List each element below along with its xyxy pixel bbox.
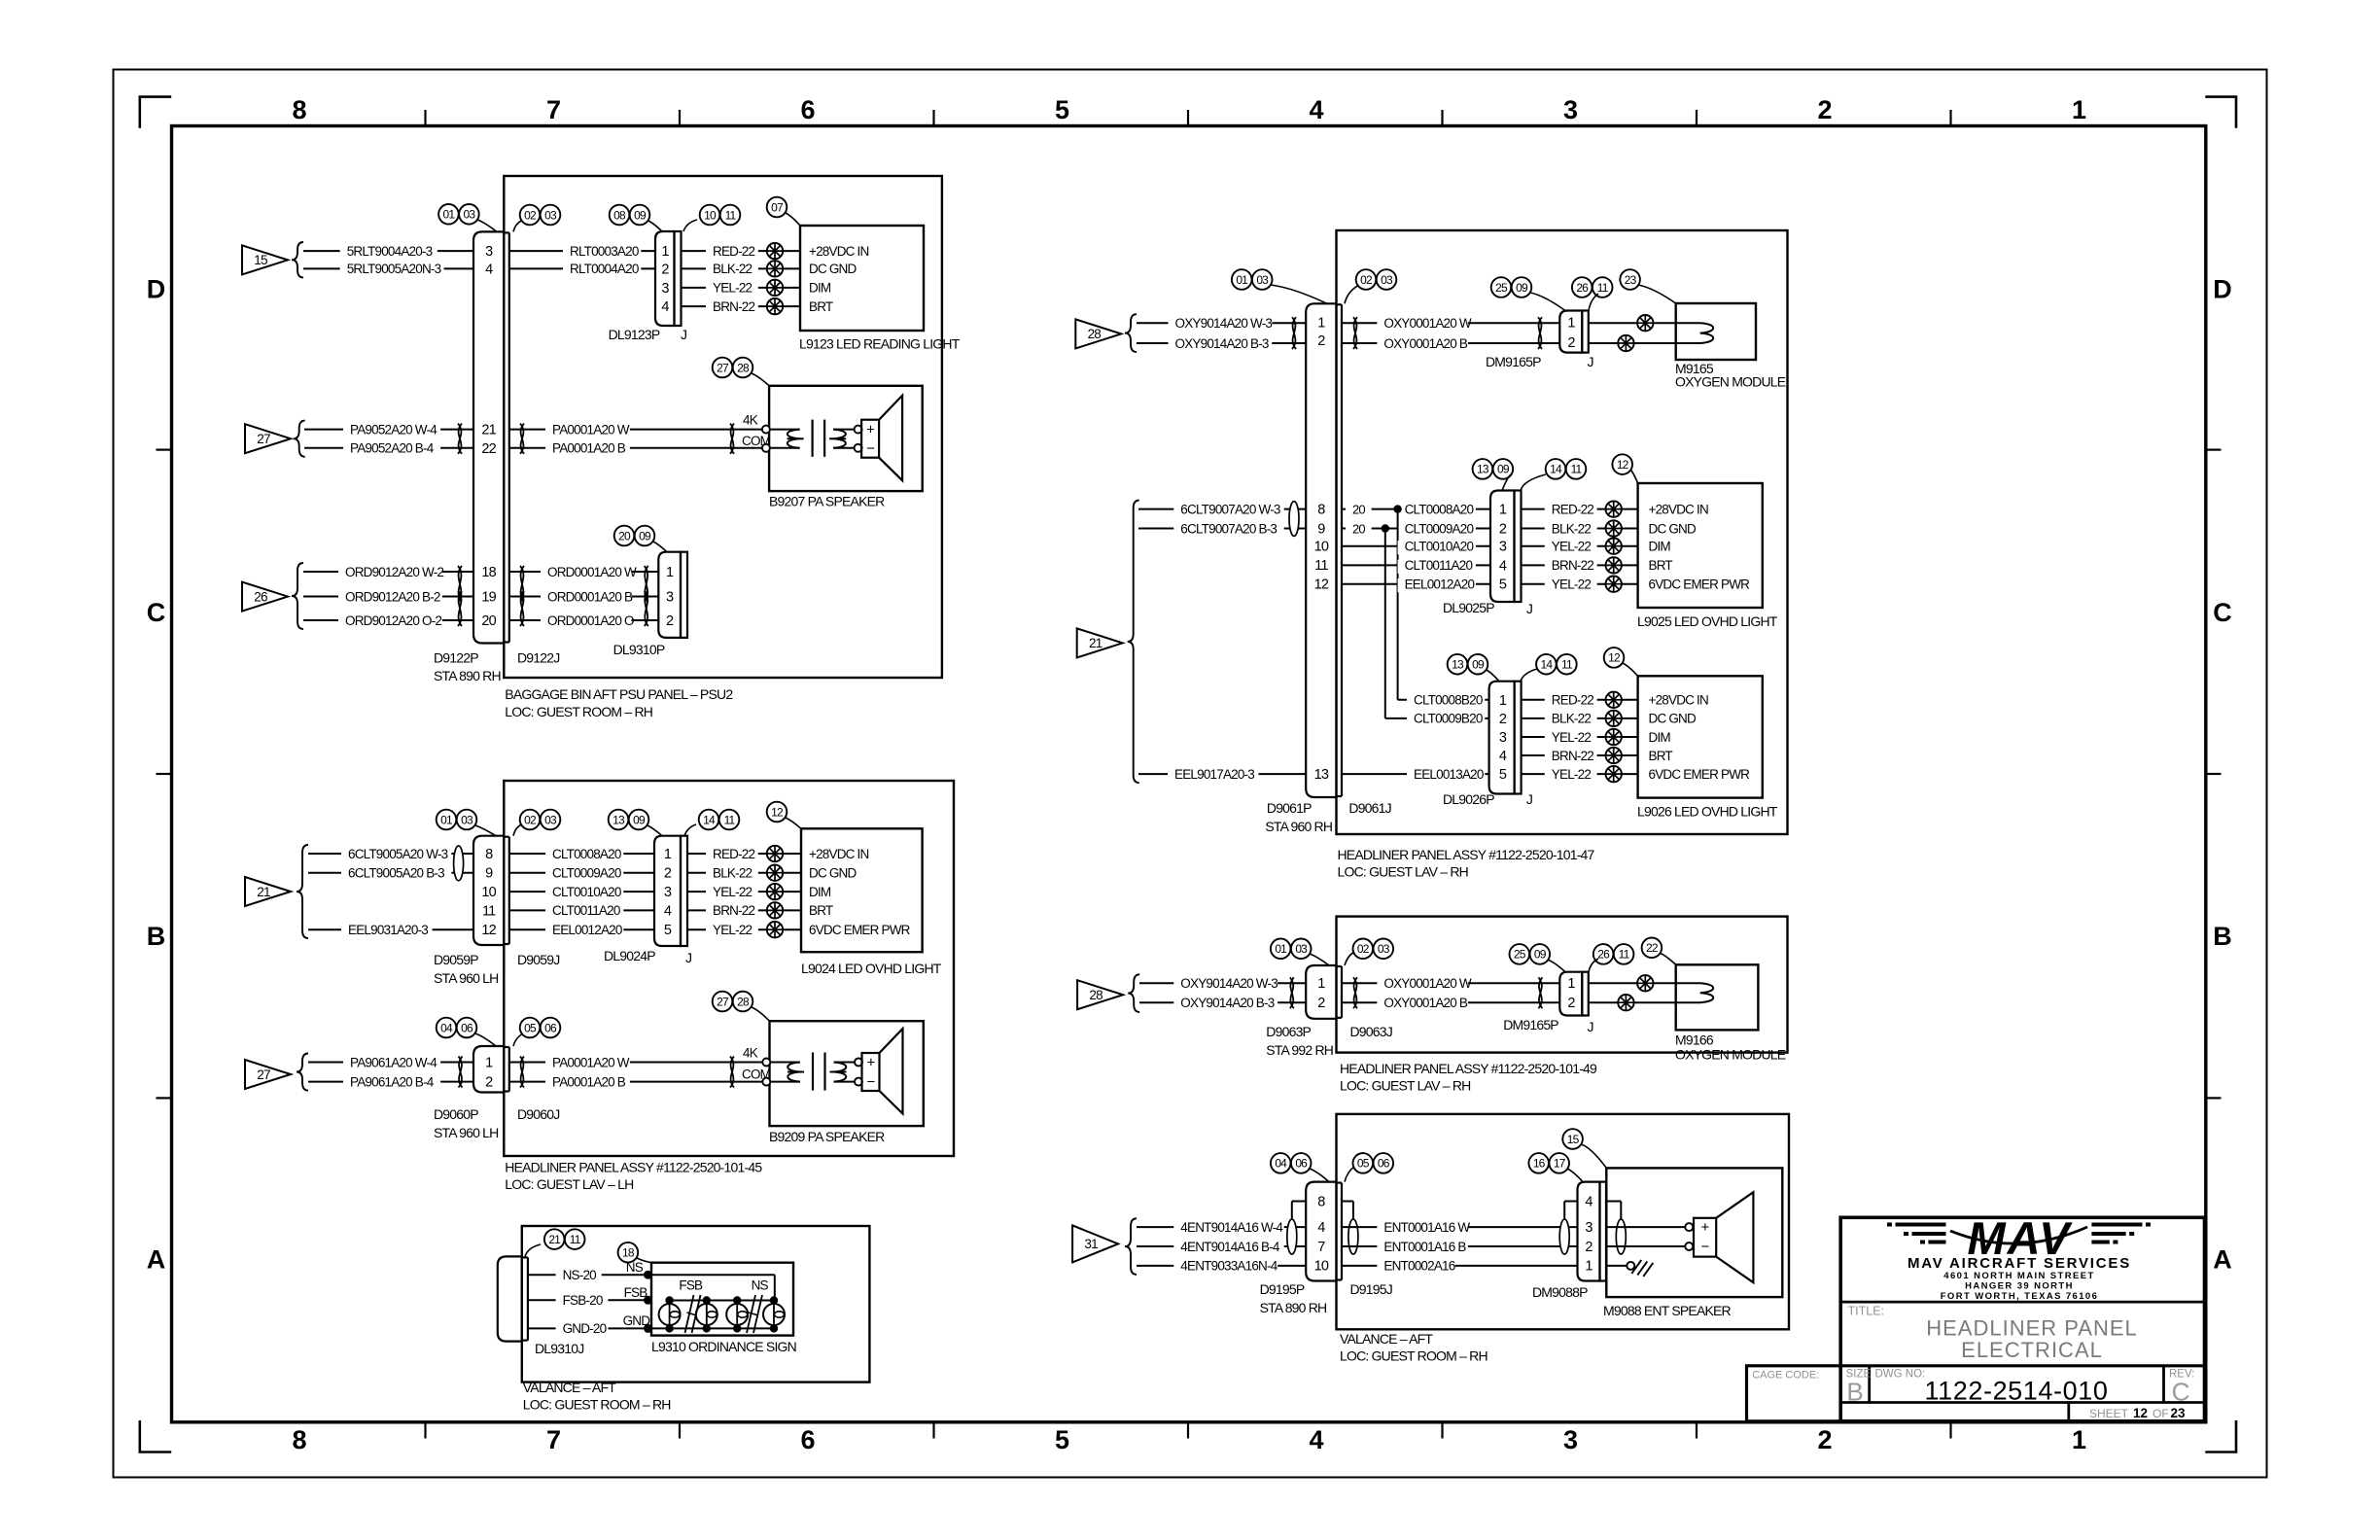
- wire RLT0004A20: [509, 262, 655, 277]
- svg-text:YEL-22: YEL-22: [713, 923, 752, 937]
- svg-text:M9088 ENT SPEAKER: M9088 ENT SPEAKER: [1603, 1303, 1732, 1318]
- svg-text:20: 20: [1352, 521, 1365, 536]
- L9025 LED OVHD light: [1637, 483, 1778, 629]
- svg-text:D9059J: D9059J: [517, 952, 559, 967]
- svg-text:FORT WORTH, TEXAS 76106: FORT WORTH, TEXAS 76106: [1941, 1291, 2099, 1302]
- svg-text:4601 NORTH MAIN STREET: 4601 NORTH MAIN STREET: [1943, 1271, 2094, 1281]
- svg-text:D: D: [147, 275, 166, 304]
- svg-text:ORD9012A20 O-2: ORD9012A20 O-2: [345, 613, 441, 628]
- balloons 05 06 (D9195J): [1345, 1153, 1393, 1182]
- svg-text:ENT0001A16 B: ENT0001A16 B: [1383, 1240, 1466, 1254]
- svg-text:OXY0001A20 W: OXY0001A20 W: [1383, 976, 1472, 991]
- svg-text:DIM: DIM: [809, 885, 831, 899]
- svg-text:20: 20: [618, 529, 631, 542]
- svg-text:BAGGAGE BIN AFT PSU PANEL – PS: BAGGAGE BIN AFT PSU PANEL – PSU2: [505, 686, 733, 702]
- L9026 LED OVHD light: [1637, 676, 1778, 819]
- balloon 22 (M9166): [1642, 938, 1676, 965]
- svg-text:D9060P: D9060P: [434, 1106, 478, 1122]
- balloons 21 11 (DL9310J): [525, 1229, 585, 1256]
- svg-text:22: 22: [1646, 941, 1659, 955]
- svg-text:DC GND: DC GND: [809, 866, 857, 881]
- svg-text:3: 3: [485, 244, 493, 260]
- svg-text:10: 10: [1314, 540, 1329, 555]
- enclosure: headliner panel assy 101-47: [1337, 230, 1788, 880]
- svg-text:M9166: M9166: [1675, 1032, 1714, 1048]
- svg-text:1: 1: [485, 1055, 493, 1070]
- svg-text:+28VDC IN: +28VDC IN: [809, 244, 869, 259]
- balloons 13 09 (DL9026P): [1448, 654, 1499, 682]
- svg-text:11: 11: [725, 208, 737, 222]
- wires 6CLT9007A20 W-3/B-3: [1138, 502, 1306, 537]
- svg-text:12: 12: [1608, 651, 1621, 665]
- svg-text:16: 16: [1533, 1157, 1546, 1171]
- svg-text:4K: 4K: [743, 413, 758, 428]
- svg-text:06: 06: [1295, 1157, 1308, 1171]
- svg-text:OXY9014A20 W-3: OXY9014A20 W-3: [1180, 976, 1277, 991]
- balloons 27 28 (B9207): [713, 358, 769, 386]
- balloons 02 03 (D9063J): [1345, 939, 1393, 966]
- svg-text:CLT0011A20: CLT0011A20: [1405, 558, 1473, 573]
- svg-text:CLT0008A20: CLT0008A20: [1405, 502, 1474, 516]
- svg-text:LOC: GUEST ROOM – RH: LOC: GUEST ROOM – RH: [1340, 1348, 1487, 1364]
- wire 6CLT9005A20 B-3: [308, 866, 473, 882]
- svg-text:5RLT9005A20N-3: 5RLT9005A20N-3: [347, 262, 441, 276]
- svg-text:FSB: FSB: [624, 1285, 648, 1300]
- svg-text:OXY0001A20 W: OXY0001A20 W: [1383, 316, 1472, 331]
- svg-text:STA 890 RH: STA 890 RH: [434, 668, 501, 683]
- svg-text:B: B: [147, 922, 166, 951]
- size / dwg no / rev row: [1846, 1368, 2195, 1406]
- svg-text:1: 1: [1317, 976, 1325, 992]
- balloons 01 03 (D9061P): [1232, 269, 1327, 303]
- wire PA9052A20 W-4 to pin 21: [304, 422, 473, 437]
- svg-text:RLT0003A20: RLT0003A20: [570, 244, 639, 259]
- svg-text:10: 10: [1314, 1259, 1329, 1275]
- svg-text:01: 01: [1275, 942, 1287, 956]
- svg-text:06: 06: [544, 1021, 557, 1034]
- L9024 LED OVHD light: [801, 828, 942, 976]
- svg-text:07: 07: [771, 200, 784, 214]
- connector D9060P / D9060J STA 960 LH: [434, 1046, 559, 1140]
- svg-text:LOC: GUEST ROOM – RH: LOC: GUEST ROOM – RH: [523, 1397, 671, 1413]
- svg-text:YEL-22: YEL-22: [1552, 730, 1592, 745]
- balloons 14 11 (DL9026P J): [1521, 654, 1577, 682]
- svg-text:J: J: [685, 950, 691, 965]
- svg-text:LOC: GUEST LAV – RH: LOC: GUEST LAV – RH: [1338, 864, 1468, 880]
- svg-text:11: 11: [1619, 948, 1630, 962]
- svg-text:D9061J: D9061J: [1348, 800, 1390, 816]
- shield jumper after DM9088P J: [1606, 1202, 1626, 1255]
- svg-text:14: 14: [1550, 463, 1562, 476]
- svg-text:D9195J: D9195J: [1350, 1281, 1392, 1297]
- svg-text:PA0001A20 B: PA0001A20 B: [552, 441, 626, 456]
- svg-text:BRN-22: BRN-22: [713, 903, 755, 918]
- svg-text:03: 03: [1295, 942, 1308, 956]
- svg-text:20: 20: [1352, 502, 1365, 516]
- corner alignment marks: [140, 97, 2236, 1452]
- svg-text:HEADLINER PANEL ASSY #1122-252: HEADLINER PANEL ASSY #1122-2520-101-49: [1340, 1061, 1597, 1076]
- svg-text:18: 18: [481, 565, 496, 580]
- svg-text:−: −: [866, 440, 875, 457]
- svg-text:DM9165P: DM9165P: [1503, 1017, 1558, 1032]
- svg-text:VALANCE – AFT: VALANCE – AFT: [523, 1380, 616, 1395]
- svg-text:27: 27: [257, 432, 270, 446]
- balloons 14 11 (DL9024P J): [684, 810, 739, 836]
- connector DM9088P: [1532, 1182, 1606, 1300]
- flag 27: [245, 421, 305, 457]
- svg-text:28: 28: [737, 361, 750, 374]
- svg-text:NS: NS: [752, 1277, 769, 1292]
- svg-text:D9122P: D9122P: [434, 650, 478, 666]
- svg-text:RLT0004A20: RLT0004A20: [570, 262, 639, 276]
- svg-text:4K: 4K: [743, 1046, 758, 1061]
- svg-text:1: 1: [1499, 503, 1507, 518]
- svg-text:2: 2: [1567, 335, 1575, 351]
- wires ENT0001A16 W/B, ENT0002A16: [1342, 1220, 1577, 1274]
- svg-text:10: 10: [481, 885, 496, 900]
- balloons 20 09 (DL9310P): [614, 526, 667, 552]
- svg-text:4: 4: [1309, 95, 1323, 124]
- svg-text:HEADLINER PANEL ASSY #1122-252: HEADLINER PANEL ASSY #1122-2520-101-45: [505, 1160, 762, 1175]
- svg-text:D: D: [2213, 275, 2232, 304]
- svg-text:CLT0009A20: CLT0009A20: [552, 866, 621, 881]
- svg-text:A: A: [2213, 1245, 2232, 1275]
- svg-text:YEL-22: YEL-22: [713, 885, 752, 899]
- svg-text:1: 1: [2072, 1425, 2086, 1454]
- connector D9122P / D9122J STA 890 RH: [434, 231, 559, 683]
- svg-text:+: +: [867, 1055, 876, 1071]
- svg-text:DC GND: DC GND: [809, 262, 857, 276]
- svg-text:4: 4: [664, 903, 672, 919]
- flag 21: [245, 845, 308, 938]
- svg-text:DL9025P: DL9025P: [1443, 600, 1494, 615]
- svg-text:YEL-22: YEL-22: [1552, 767, 1592, 782]
- svg-text:STA 960 LH: STA 960 LH: [434, 1125, 498, 1140]
- svg-text:1122-2514-010: 1122-2514-010: [1925, 1377, 2109, 1406]
- svg-text:DL9123P: DL9123P: [609, 327, 660, 342]
- svg-text:7: 7: [1317, 1240, 1325, 1255]
- wire EEL0013A20: [1342, 767, 1489, 783]
- svg-text:CAGE CODE:: CAGE CODE:: [1752, 1369, 1819, 1381]
- svg-text:TITLE:: TITLE:: [1848, 1305, 1885, 1318]
- wire RLT0003A20: [509, 244, 655, 260]
- svg-text:2: 2: [666, 613, 674, 629]
- svg-text:FSB: FSB: [679, 1277, 703, 1292]
- svg-text:BLK-22: BLK-22: [1552, 712, 1592, 726]
- svg-text:01: 01: [440, 813, 453, 826]
- svg-text:6VDC EMER PWR: 6VDC EMER PWR: [809, 923, 911, 937]
- balloons 02 03 (D9061J): [1345, 269, 1396, 303]
- svg-text:19: 19: [481, 590, 496, 606]
- svg-text:1: 1: [664, 847, 672, 862]
- svg-text:+28VDC IN: +28VDC IN: [1649, 502, 1709, 516]
- svg-text:BLK-22: BLK-22: [1552, 521, 1592, 536]
- svg-text:SHEET: SHEET: [2089, 1407, 2129, 1420]
- wire GND-20: [528, 1313, 651, 1337]
- svg-text:28: 28: [1089, 988, 1102, 1002]
- svg-text:RED-22: RED-22: [713, 847, 755, 861]
- svg-text:DC GND: DC GND: [1649, 712, 1697, 726]
- svg-text:03: 03: [461, 813, 473, 826]
- svg-text:ELECTRICAL: ELECTRICAL: [1961, 1338, 2103, 1362]
- border zone ticks and grid labels: [147, 95, 2232, 1454]
- svg-text:5: 5: [1055, 95, 1069, 124]
- svg-text:CLT0010A20: CLT0010A20: [1405, 540, 1474, 554]
- balloons 26 11 (DM9165P J mid): [1589, 944, 1633, 972]
- svg-text:3: 3: [1499, 730, 1507, 746]
- wires 4ENT9014A16 W-4/B-4, 4ENT9033A16N-4: [1137, 1220, 1306, 1274]
- wires PA9061A20 W-4/B-4: [308, 1055, 473, 1090]
- svg-text:4: 4: [1317, 1220, 1325, 1236]
- svg-text:09: 09: [633, 813, 646, 826]
- svg-text:OXY0001A20 B: OXY0001A20 B: [1383, 336, 1468, 351]
- balloons 10 11 (DL9123P J): [683, 205, 740, 231]
- wires ORD9012A20 W-2/B-2/O-2: [303, 565, 473, 629]
- sheet row: [2089, 1406, 2186, 1420]
- svg-text:04: 04: [1275, 1157, 1287, 1171]
- svg-text:OXY9014A20 B-3: OXY9014A20 B-3: [1180, 996, 1274, 1010]
- svg-text:4: 4: [661, 299, 669, 315]
- wire PA9052A20 B-4 to pin 22: [304, 441, 473, 457]
- svg-text:STA 960 RH: STA 960 RH: [1265, 819, 1332, 834]
- svg-text:EEL0013A20: EEL0013A20: [1414, 767, 1484, 782]
- svg-text:6CLT9007A20 B-3: 6CLT9007A20 B-3: [1180, 521, 1277, 536]
- svg-text:3: 3: [661, 281, 669, 297]
- wires OXY9014A20 W-3/B-3: [1137, 316, 1306, 352]
- enclosure: baggage bin aft PSU panel PSU2: [504, 176, 942, 719]
- svg-text:4: 4: [1499, 749, 1507, 764]
- svg-text:A: A: [147, 1245, 166, 1275]
- svg-text:HEADLINER PANEL ASSY #1122-252: HEADLINER PANEL ASSY #1122-2520-101-47: [1338, 847, 1595, 862]
- svg-text:B9209 PA SPEAKER: B9209 PA SPEAKER: [769, 1129, 885, 1144]
- svg-text:L9310 ORDINANCE SIGN: L9310 ORDINANCE SIGN: [651, 1339, 796, 1354]
- svg-text:20: 20: [481, 613, 496, 629]
- balloons 26 11 (DM9165P J): [1572, 277, 1613, 310]
- svg-text:02: 02: [524, 813, 537, 826]
- svg-text:11: 11: [1597, 281, 1609, 295]
- svg-text:03: 03: [464, 208, 476, 222]
- shield jumper pin 8 (right of J): [1342, 1202, 1358, 1255]
- svg-text:J: J: [681, 327, 686, 342]
- svg-text:11: 11: [1314, 558, 1328, 574]
- svg-text:OXY0001A20 B: OXY0001A20 B: [1383, 996, 1468, 1010]
- svg-text:BRN-22: BRN-22: [1552, 749, 1594, 763]
- balloons 14 11 (DL9025P J): [1521, 459, 1586, 490]
- svg-text:1: 1: [1567, 316, 1575, 332]
- svg-text:EEL0012A20: EEL0012A20: [552, 923, 622, 937]
- lamp wires RED/BLK/YEL/BRN-22 into L9123: [682, 243, 869, 315]
- svg-text:7: 7: [546, 95, 561, 124]
- main drawing frame: [172, 126, 2206, 1422]
- B9207 PA speaker: [762, 386, 923, 509]
- svg-text:1: 1: [666, 565, 674, 580]
- svg-text:D9060J: D9060J: [517, 1106, 559, 1122]
- svg-text:PA0001A20 W: PA0001A20 W: [552, 422, 630, 437]
- svg-text:DL9310P: DL9310P: [613, 642, 665, 657]
- balloon 12 (L9024): [767, 802, 801, 829]
- svg-text:PA0001A20 B: PA0001A20 B: [552, 1074, 626, 1089]
- svg-text:09: 09: [1516, 281, 1528, 295]
- svg-text:VALANCE – AFT: VALANCE – AFT: [1340, 1331, 1433, 1347]
- svg-text:B9207 PA SPEAKER: B9207 PA SPEAKER: [769, 494, 885, 509]
- svg-text:ENT0002A16: ENT0002A16: [1383, 1259, 1454, 1274]
- branch wires to DL9026P: [1385, 509, 1489, 727]
- svg-text:BRT: BRT: [1649, 749, 1673, 763]
- svg-text:YEL-22: YEL-22: [1552, 577, 1592, 592]
- enclosure: valance aft (left): [522, 1226, 870, 1413]
- svg-text:5: 5: [1499, 577, 1507, 593]
- svg-text:11: 11: [1561, 658, 1573, 672]
- svg-text:2: 2: [1499, 522, 1507, 538]
- wires OXY9014A20 W-3/B-3 (mid): [1139, 976, 1306, 1011]
- svg-text:L9123 LED READING LIGHT: L9123 LED READING LIGHT: [799, 336, 961, 352]
- svg-text:3: 3: [666, 590, 674, 606]
- svg-text:STA 890 RH: STA 890 RH: [1260, 1300, 1327, 1315]
- svg-text:26: 26: [254, 589, 267, 604]
- svg-text:4: 4: [1499, 558, 1507, 574]
- connector DM9165P / J (M9165): [1486, 311, 1593, 370]
- svg-text:26: 26: [1597, 948, 1610, 962]
- svg-text:4ENT9014A16 B-4: 4ENT9014A16 B-4: [1180, 1240, 1280, 1254]
- svg-text:03: 03: [1256, 273, 1269, 287]
- svg-text:09: 09: [1472, 658, 1485, 672]
- svg-text:YEL-22: YEL-22: [713, 281, 752, 296]
- svg-text:J: J: [1588, 354, 1593, 369]
- flag 31 (4ENT): [1072, 1218, 1137, 1275]
- balloons 02 03 (D9059J): [513, 810, 560, 836]
- svg-text:PA9061A20 W-4: PA9061A20 W-4: [350, 1055, 437, 1069]
- connector DL9310J: [498, 1256, 584, 1356]
- svg-text:LOC: GUEST LAV – RH: LOC: GUEST LAV – RH: [1340, 1078, 1470, 1094]
- svg-text:6CLT9007A20 W-3: 6CLT9007A20 W-3: [1180, 502, 1280, 516]
- svg-text:4: 4: [485, 262, 493, 278]
- balloons 01 03 (D9059P): [437, 810, 496, 836]
- svg-text:D9059P: D9059P: [434, 952, 478, 967]
- svg-text:DL9024P: DL9024P: [604, 948, 655, 963]
- balloons 05 06 (D9060J): [513, 1018, 560, 1046]
- svg-text:−: −: [867, 1074, 876, 1091]
- svg-text:03: 03: [1381, 273, 1393, 287]
- M9088 ENT speaker: [1603, 1168, 1782, 1318]
- balloon 23 (M9165): [1620, 269, 1675, 303]
- svg-text:03: 03: [544, 813, 557, 826]
- connector D9059P / D9059J STA 960 LH: [434, 836, 559, 986]
- connector DL9025P / J: [1443, 491, 1532, 617]
- lamp wires into L9026: [1522, 692, 1751, 783]
- svg-text:2: 2: [661, 262, 669, 278]
- svg-text:CLT0008A20: CLT0008A20: [552, 847, 621, 861]
- svg-text:27: 27: [717, 361, 729, 374]
- svg-text:D9063J: D9063J: [1350, 1024, 1392, 1039]
- svg-text:4: 4: [1585, 1194, 1592, 1209]
- svg-text:C: C: [2172, 1378, 2190, 1407]
- balloon 07 (L9123): [767, 197, 800, 226]
- svg-text:6: 6: [800, 1425, 815, 1454]
- flag 26: [242, 563, 303, 629]
- svg-text:DIM: DIM: [809, 281, 831, 296]
- enclosure: valance aft (right): [1337, 1114, 1790, 1364]
- svg-text:STA 960 LH: STA 960 LH: [434, 970, 498, 986]
- svg-text:8: 8: [1317, 502, 1325, 517]
- balloons 04 06 (D9060P): [437, 1018, 496, 1046]
- connector D9195P / D9195J STA 890 RH: [1260, 1182, 1392, 1315]
- balloon 12 (L9026): [1604, 647, 1638, 676]
- svg-text:11: 11: [1571, 463, 1583, 476]
- svg-text:11: 11: [570, 1233, 581, 1246]
- wire 5RLT9005A20N-3 to pin 4: [303, 262, 473, 277]
- svg-text:2: 2: [1585, 1240, 1592, 1255]
- svg-text:2: 2: [1817, 95, 1832, 124]
- balloon 12 (L9025): [1612, 454, 1637, 483]
- svg-text:4ENT9014A16 W-4: 4ENT9014A16 W-4: [1180, 1220, 1283, 1235]
- flag 28 (OXY9014 mid): [1077, 974, 1139, 1012]
- svg-text:1: 1: [2072, 95, 2086, 124]
- svg-text:BRN-22: BRN-22: [1552, 558, 1594, 573]
- svg-text:2: 2: [1817, 1425, 1832, 1454]
- svg-text:5: 5: [664, 923, 672, 938]
- lamps and wires to M9166: [1589, 975, 1676, 1010]
- connector D9061P / D9061J STA 960 RH: [1265, 303, 1390, 834]
- svg-text:−: −: [1701, 1239, 1710, 1255]
- svg-text:27: 27: [717, 995, 729, 1008]
- balloons 04 06 (D9195P): [1271, 1153, 1329, 1182]
- svg-text:OF: OF: [2152, 1407, 2169, 1420]
- svg-text:2: 2: [1317, 996, 1325, 1011]
- svg-text:09: 09: [1497, 463, 1510, 476]
- svg-text:05: 05: [524, 1021, 537, 1034]
- svg-text:25: 25: [1514, 948, 1526, 962]
- svg-text:1: 1: [661, 244, 669, 260]
- svg-text:+28VDC IN: +28VDC IN: [809, 847, 869, 861]
- svg-text:09: 09: [639, 529, 651, 542]
- svg-text:B: B: [2213, 922, 2232, 951]
- svg-text:J: J: [1588, 1019, 1593, 1034]
- svg-text:L9026 LED OVHD LIGHT: L9026 LED OVHD LIGHT: [1637, 804, 1778, 820]
- svg-text:12: 12: [1617, 458, 1629, 472]
- svg-text:L9025 LED OVHD LIGHT: L9025 LED OVHD LIGHT: [1637, 613, 1778, 629]
- wire EEL9017A20-3 to pin 13: [1138, 767, 1306, 783]
- svg-text:2: 2: [485, 1074, 493, 1090]
- L9123 LED reading light: [799, 226, 961, 352]
- svg-text:ORD0001A20 O: ORD0001A20 O: [547, 613, 634, 628]
- svg-text:D9061P: D9061P: [1267, 800, 1312, 816]
- svg-text:RED-22: RED-22: [1552, 502, 1594, 516]
- svg-text:13: 13: [612, 813, 625, 826]
- connector DL9026P / J: [1443, 682, 1532, 807]
- svg-text:DC GND: DC GND: [1649, 521, 1697, 536]
- connector DL9310P: [613, 552, 687, 657]
- svg-text:L9024 LED OVHD LIGHT: L9024 LED OVHD LIGHT: [801, 961, 942, 976]
- flag 21 (6CLT9007): [1077, 501, 1139, 784]
- svg-text:3: 3: [664, 885, 672, 900]
- lamps and wires to M9165: [1589, 315, 1676, 351]
- svg-text:J: J: [1526, 791, 1532, 807]
- svg-text:BRT: BRT: [809, 299, 833, 314]
- svg-text:DIM: DIM: [1649, 730, 1671, 745]
- svg-text:26: 26: [1576, 281, 1589, 295]
- svg-text:MAV AIRCRAFT SERVICES: MAV AIRCRAFT SERVICES: [1907, 1255, 2131, 1272]
- shield jumper at DM9088P (left side): [1559, 1202, 1577, 1255]
- svg-text:12: 12: [1314, 577, 1329, 593]
- svg-text:+28VDC IN: +28VDC IN: [1649, 693, 1709, 708]
- wires PA0001A20 W/B to speaker: [509, 413, 771, 457]
- wire NS-20: [528, 1260, 651, 1283]
- svg-text:LOC: GUEST LAV – LH: LOC: GUEST LAV – LH: [505, 1176, 633, 1192]
- svg-text:13: 13: [1452, 658, 1464, 672]
- balloons 25 09 (DM9165P): [1491, 277, 1565, 310]
- flag 28 (OXY9014): [1075, 314, 1137, 352]
- balloons 25 09 (DM9165P mid): [1510, 944, 1566, 972]
